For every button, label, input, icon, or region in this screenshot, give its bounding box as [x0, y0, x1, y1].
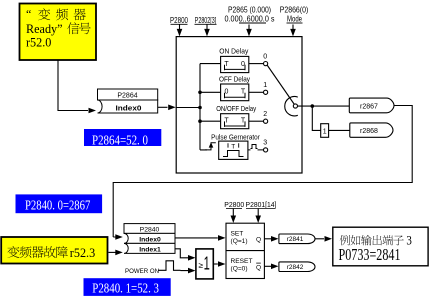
svg-text:0: 0: [241, 61, 245, 68]
svg-text:ON Delay: ON Delay: [219, 46, 248, 55]
svg-text:(Q=1): (Q=1): [231, 238, 248, 245]
svg-text:P0733=2841: P0733=2841: [339, 245, 401, 264]
svg-text:ON/OFF Delay: ON/OFF Delay: [216, 104, 256, 113]
svg-text:P2866(0): P2866(0): [280, 5, 309, 14]
svg-text:r2868: r2868: [360, 128, 378, 135]
svg-text:RESET: RESET: [231, 258, 253, 265]
svg-text:P2840. 1=52. 3: P2840. 1=52. 3: [92, 282, 159, 297]
svg-text:1: 1: [263, 82, 267, 89]
svg-text:3: 3: [263, 140, 267, 147]
svg-text:r52.0: r52.0: [26, 36, 51, 50]
svg-text:OFF Delay: OFF Delay: [219, 74, 250, 83]
svg-text:Q: Q: [256, 236, 261, 243]
svg-text:3: 3: [406, 233, 412, 248]
svg-text:T: T: [224, 117, 229, 124]
svg-text:Index1: Index1: [139, 246, 161, 253]
svg-text:Ready”: Ready”: [26, 22, 63, 36]
svg-text:SET: SET: [231, 230, 244, 237]
svg-text:r2841: r2841: [287, 236, 304, 243]
svg-text:P2802[3]: P2802[3]: [195, 16, 217, 25]
svg-text:P2864: P2864: [117, 93, 137, 100]
svg-text:P2865 (0.000): P2865 (0.000): [228, 5, 271, 14]
svg-text:Mode: Mode: [287, 15, 302, 24]
svg-text:P2801[14]: P2801[14]: [246, 200, 277, 209]
svg-text:r52.3: r52.3: [70, 246, 95, 260]
svg-text:P2800: P2800: [224, 200, 244, 209]
svg-text:T: T: [224, 61, 229, 68]
svg-text:r2867: r2867: [360, 103, 378, 110]
svg-text:Pulse Gernerator: Pulse Gernerator: [211, 132, 260, 141]
svg-text:≥: ≥: [198, 261, 203, 270]
svg-text:1: 1: [204, 252, 210, 273]
svg-text:0.000..6000.0 s: 0.000..6000.0 s: [225, 15, 275, 24]
svg-text:1: 1: [323, 128, 327, 135]
svg-text:Index0: Index0: [139, 236, 161, 243]
svg-text:P2864=52. 0: P2864=52. 0: [92, 134, 148, 149]
svg-text:(Q=0): (Q=0): [231, 266, 248, 273]
svg-text:P2840. 0=2867: P2840. 0=2867: [25, 198, 90, 213]
svg-text:“: “: [26, 7, 31, 21]
svg-text:Q: Q: [256, 264, 261, 271]
svg-text:r2842: r2842: [287, 264, 304, 271]
svg-text:POWER ON: POWER ON: [125, 268, 159, 275]
svg-text:P2800: P2800: [170, 16, 189, 25]
svg-text:2: 2: [263, 111, 267, 118]
svg-text:T: T: [231, 144, 235, 151]
svg-text:P2840: P2840: [140, 226, 160, 233]
svg-text:0: 0: [263, 53, 267, 60]
svg-text:Index0: Index0: [116, 103, 142, 112]
svg-text:0: 0: [225, 88, 229, 95]
